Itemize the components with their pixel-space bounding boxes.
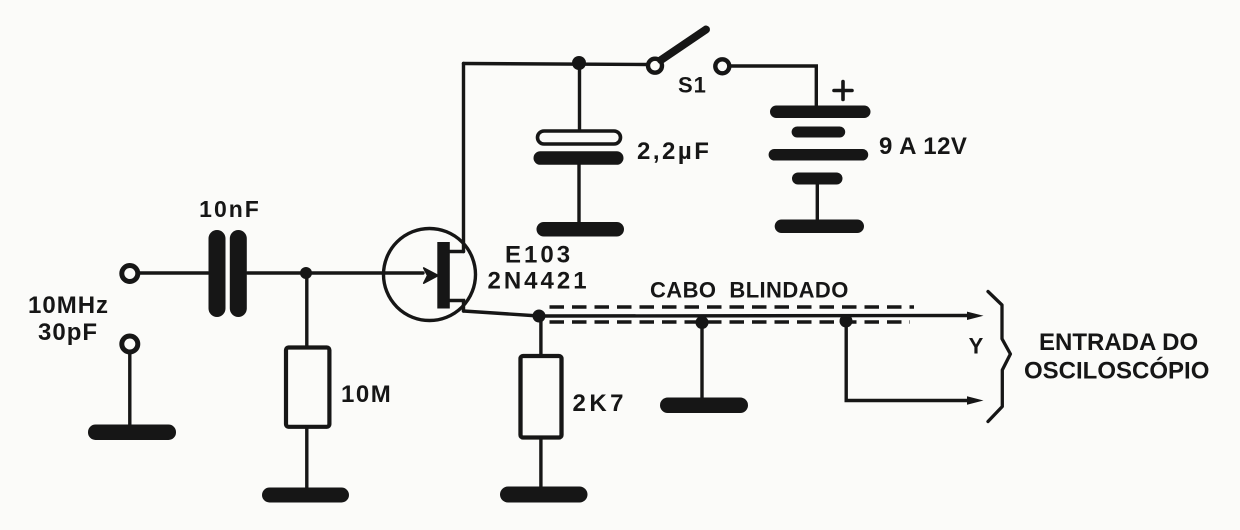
switch S1 throw terminal bbox=[715, 59, 729, 73]
svg-text:2N4421: 2N4421 bbox=[488, 268, 590, 295]
svg-text:CABO BLINDADO: CABO BLINDADO bbox=[650, 278, 849, 303]
node C junction dot bbox=[533, 310, 546, 323]
shield lower dashed line bbox=[550, 320, 911, 323]
node A junction dot bbox=[300, 267, 312, 279]
ground G1 bbox=[88, 425, 176, 441]
wire B1 to ground bbox=[816, 184, 819, 221]
svg-text:10MHz: 10MHz bbox=[28, 292, 109, 319]
ground G2 bbox=[262, 488, 349, 503]
svg-text:10M: 10M bbox=[341, 381, 392, 408]
capacitor C2 top plate bbox=[538, 131, 621, 144]
wire node E to scope ground bbox=[846, 321, 968, 401]
wire C1 to base node bbox=[248, 271, 424, 274]
svg-text:10nF: 10nF bbox=[199, 196, 261, 222]
wire signal line to scope bbox=[539, 314, 968, 318]
ground G6 bbox=[660, 398, 748, 414]
switch S1 pole terminal bbox=[648, 59, 662, 73]
transistor Q1 emitter stub bbox=[450, 301, 464, 312]
input terminal J1 bbox=[122, 266, 138, 282]
capacitor C2 bottom plate bbox=[534, 151, 624, 165]
wire J2 to ground bbox=[128, 353, 131, 427]
wire node C to R2 bbox=[539, 316, 542, 357]
svg-text:2K7: 2K7 bbox=[573, 390, 628, 417]
brace bbox=[988, 292, 1010, 422]
wire C2 to ground bbox=[577, 165, 580, 223]
switch S1 lever bbox=[661, 30, 706, 61]
svg-text:9 A 12V: 9 A 12V bbox=[879, 133, 967, 160]
wire R1 to ground bbox=[305, 427, 308, 489]
svg-text:ENTRADA DO: ENTRADA DO bbox=[1039, 329, 1198, 356]
node D shield ground junction bbox=[696, 316, 709, 329]
svg-text:2,2µF: 2,2µF bbox=[637, 138, 711, 165]
battery B1 plate 4 bbox=[792, 173, 843, 185]
wire collector vertical bbox=[462, 64, 465, 252]
node E shield tap junction bbox=[840, 315, 853, 328]
wire node D to ground bbox=[700, 323, 703, 399]
svg-text:OSCILOSCÓPIO: OSCILOSCÓPIO bbox=[1024, 357, 1209, 385]
wire S1 to battery bbox=[731, 66, 817, 106]
svg-text:E103: E103 bbox=[505, 242, 573, 269]
shield upper dashed line bbox=[550, 305, 915, 308]
svg-text:30pF: 30pF bbox=[38, 319, 98, 346]
transistor Q1 collector stub bbox=[450, 250, 464, 253]
ground G4 bbox=[775, 220, 864, 234]
svg-text:S1: S1 bbox=[678, 73, 707, 98]
arrowhead signal bbox=[967, 312, 984, 320]
capacitor C1 10nF right plate bbox=[230, 230, 247, 317]
ground G5 bbox=[500, 487, 588, 503]
wire top rail bbox=[464, 64, 649, 65]
wire emitter to node C bbox=[464, 311, 540, 316]
wire node A to R1 bbox=[305, 273, 308, 348]
wire R2 to ground bbox=[539, 438, 542, 490]
battery B1 plate 3 bbox=[769, 149, 869, 161]
resistor R1 10M bbox=[286, 348, 329, 427]
transistor Q1 base bar bbox=[437, 242, 450, 309]
svg-text:Y: Y bbox=[969, 334, 984, 359]
battery B1 plate 1 bbox=[770, 106, 871, 119]
ground G3 bbox=[537, 222, 625, 237]
input terminal J2 bbox=[122, 336, 138, 352]
node B junction dot bbox=[572, 56, 586, 70]
capacitor C1 10nF left plate bbox=[209, 230, 226, 317]
arrowhead ground return bbox=[967, 396, 984, 404]
transistor Q1 body circle bbox=[384, 229, 476, 321]
wire node B to C2 bbox=[578, 63, 581, 132]
transistor Q1 base arrowhead bbox=[424, 268, 438, 283]
resistor R2 2K7 bbox=[521, 356, 562, 438]
wire J1 to C1 bbox=[139, 271, 209, 274]
battery B1 plus sign bbox=[834, 82, 852, 100]
battery B1 plate 2 bbox=[792, 127, 846, 138]
